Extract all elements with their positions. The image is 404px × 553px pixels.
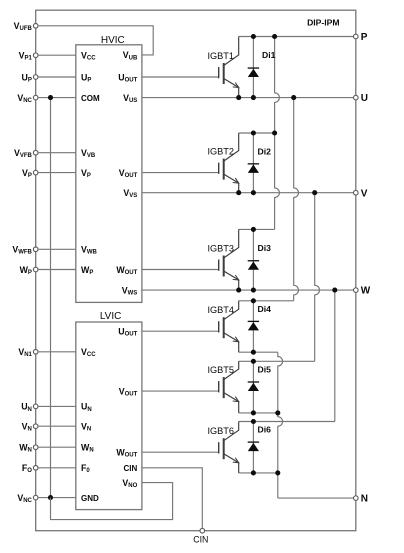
svg-text:HVIC: HVIC [101,35,125,46]
diode Di1 [248,37,259,98]
transistor IGBT6 [219,422,239,473]
terminal VP pin circle [33,170,38,175]
wire LVIC CIN to CIN terminal [142,468,202,531]
wire U feed vertical (U line down to IGBT4 collector, hops over V and W) [294,98,299,301]
wire V feed vertical (V line down to IGBT5 collector, hops over W) [315,193,320,362]
IC block HVIC [76,45,142,303]
diode Di2 [248,133,259,193]
junction IGBT4 rail / Di4 [251,298,256,303]
junction V line / IGBT2 emitter [236,190,241,195]
wire P rail [239,36,356,38]
wire VNC2 to LVIC GND [38,497,76,499]
svg-text:VP: VP [22,168,32,179]
svg-text:VOUT: VOUT [119,386,138,397]
svg-text:LVIC: LVIC [100,311,122,322]
wire VNC control-ground vertical bus [50,98,52,498]
svg-text:Di3: Di3 [258,243,272,253]
wire IGBT4 collector rail [239,300,294,302]
svg-text:VP: VP [81,168,91,179]
svg-text:GND: GND [81,494,99,503]
wire HVIC Uout to IGBT1 gate [142,76,219,78]
svg-text:IGBT3: IGBT3 [207,243,234,253]
junction U line / Di1 [251,95,256,100]
svg-text:UP: UP [22,72,32,83]
svg-text:Di6: Di6 [258,425,272,435]
svg-text:VNO: VNO [122,478,137,489]
svg-text:VWS: VWS [122,285,138,296]
svg-text:F0: F0 [81,463,90,474]
svg-text:VN: VN [22,422,32,433]
wire LVIC Vno to VNC net loop [51,483,173,520]
svg-text:VVFB: VVFB [14,148,33,159]
svg-text:VVB: VVB [81,148,96,159]
diode Di5 [248,361,259,413]
junction P rail / P feed [272,34,277,39]
wire LVIC Uout to IGBT4 gate [142,330,219,332]
terminal VP1 pin circle [33,53,38,58]
junction W line / W feed [332,288,337,293]
svg-text:N: N [361,494,368,505]
junction U line / IGBT1 emitter [236,95,241,100]
wire VWFB to HVIC Vwb [38,248,76,250]
junction IGBT6 rail / Di6 [251,419,256,424]
svg-text:VOUT: VOUT [119,168,138,179]
terminal F0 pin circle [33,466,38,471]
svg-text:VN: VN [81,422,91,433]
svg-text:VCC: VCC [81,347,96,358]
terminal W pin circle [354,288,359,293]
svg-text:Di2: Di2 [258,147,272,157]
terminal VN1 pin circle [33,350,38,355]
wire VNC to HVIC COM [38,97,76,99]
svg-text:DIP-IPM: DIP-IPM [307,18,339,28]
wire N line to N terminal [278,497,356,499]
svg-text:WOUT: WOUT [116,265,137,276]
wire WP to HVIC Wp [38,269,76,271]
junction IGBT2 rail / Di2 [251,130,256,135]
junction V line / V feed [312,190,317,195]
svg-text:VUFB: VUFB [14,21,33,32]
svg-text:WN: WN [19,443,32,454]
terminal VN pin circle [33,424,38,429]
svg-text:UOUT: UOUT [118,72,137,83]
wire IGBT6 collector rail [239,421,335,423]
wire V phase line (Vvs to V terminal) [142,192,356,194]
svg-text:W: W [361,286,371,297]
svg-text:V: V [361,188,368,199]
svg-text:IGBT4: IGBT4 [207,305,234,315]
svg-text:IGBT6: IGBT6 [207,426,234,436]
transistor IGBT2 [219,133,239,193]
transistor IGBT3 [219,229,239,290]
junction U line / U feed [291,95,296,100]
wire VP1 to HVIC Vcc [38,54,76,56]
junction IGBT5 emitter rail / Di5 [251,410,256,415]
svg-text:IGBT5: IGBT5 [207,365,234,375]
junction IGBT2 rail / P feed [272,130,277,135]
wire W feed vertical (W line down to IGBT6 collector) [334,290,336,421]
wire IGBT2 collector rail [239,132,275,134]
wire IGBT4 emitter rail to N bus [239,351,278,353]
junction V line / Di2 [251,190,256,195]
wire WN to LVIC Wn [38,446,76,448]
terminal UN pin circle [33,404,38,409]
junction W line / IGBT3 emitter [236,288,241,293]
diode Di3 [248,229,259,290]
svg-text:UOUT: UOUT [118,327,137,338]
svg-text:VN1: VN1 [18,347,32,358]
IC block LVIC [76,322,142,510]
junction IGBT5 rail / Di5 [251,359,256,364]
terminal CIN pin circle [200,528,205,533]
wire IGBT5 emitter rail to N bus [239,412,278,414]
wire VUFB to HVIC Vub (bootstrap loop) [38,26,153,55]
svg-text:Di1: Di1 [262,50,276,60]
wire N bus vertical (IGBT4/5/6 emitters to N, hops over IGBT5 and IGBT6 collector rails) [278,352,283,498]
wire W phase line (Vws to W terminal) [142,289,356,291]
wire UN to LVIC Un [38,405,76,407]
wire HVIC Wout to IGBT3 gate [142,269,219,271]
svg-text:VNC: VNC [17,493,32,504]
svg-text:VUS: VUS [123,93,137,104]
svg-text:Di5: Di5 [258,364,272,374]
wire UP to HVIC Up [38,76,76,78]
svg-text:CIN: CIN [124,464,138,473]
svg-text:WP: WP [20,265,32,276]
transistor IGBT4 [219,301,239,352]
terminal V pin circle [354,190,359,195]
wire P feed vertical (P rail to IGBT2 IGBT3 collectors, hops over U and V) [275,37,280,230]
wire IGBT3 collector rail [239,228,275,230]
wire VN1 to LVIC Vcc [38,351,76,353]
wire VN to LVIC Vn [38,425,76,427]
terminal N pin circle [354,496,359,501]
junction P rail / Di1 [251,34,256,39]
wire F0 to LVIC F0 [38,467,76,469]
wire IGBT6 emitter rail to N bus [239,472,278,474]
terminal VNC pin circle [33,95,38,100]
wire VVFB to HVIC Vvb [38,152,76,154]
junction W line / Di3 [251,288,256,293]
svg-text:IGBT1: IGBT1 [207,51,234,61]
svg-text:WP: WP [81,265,93,276]
svg-text:VP1: VP1 [19,51,33,62]
terminal WP pin circle [33,267,38,272]
svg-text:VCC: VCC [81,51,96,62]
svg-text:WOUT: WOUT [116,448,137,459]
svg-text:UN: UN [21,402,32,413]
terminal VNC2 pin circle [33,495,38,500]
wire VP to HVIC Vp [38,172,76,174]
wire HVIC Vout to IGBT2 gate [142,172,219,174]
junction VNC top [48,95,53,100]
junction IGBT3 rail / Di3 [251,227,256,232]
svg-text:VVS: VVS [123,188,137,199]
terminal UP pin circle [33,75,38,80]
wire LVIC Wout to IGBT6 gate [142,451,219,453]
svg-text:VWB: VWB [81,245,98,256]
diode Di4 [248,301,259,352]
svg-text:UN: UN [81,402,92,413]
diode Di6 [248,422,259,473]
svg-text:UP: UP [81,72,91,83]
wire LVIC Vout to IGBT5 gate [142,390,219,392]
svg-text:VNC: VNC [17,93,32,104]
outer package boundary box [36,10,356,531]
svg-text:VWFB: VWFB [12,245,32,256]
svg-text:WN: WN [81,443,94,454]
junction VNC bottom [48,495,53,500]
svg-text:IGBT2: IGBT2 [207,146,234,156]
terminal WN pin circle [33,445,38,450]
svg-text:FO: FO [22,463,32,474]
transistor IGBT5 [219,361,239,413]
wire IGBT5 collector rail [239,360,315,362]
svg-text:Di4: Di4 [258,304,272,314]
junction IGBT6 emitter rail / Di6 [251,470,256,475]
terminal P pin circle [354,34,359,39]
junction IGBT5 emitter rail / N bus [275,410,280,415]
terminal U pin circle [354,95,359,100]
svg-text:P: P [361,32,368,43]
transistor IGBT1 [219,37,239,98]
junction IGBT6 emitter rail / N bus [275,470,280,475]
terminal VVFB pin circle [33,150,38,155]
svg-text:U: U [361,93,368,104]
svg-text:VUB: VUB [123,50,138,61]
wire U phase line (Vus to U terminal) [142,97,356,99]
junction IGBT4 emitter rail / Di4 [251,350,256,355]
terminal VUFB pin circle [33,24,38,29]
svg-text:COM: COM [81,94,100,103]
svg-text:CIN: CIN [193,535,208,545]
terminal VWFB pin circle [33,247,38,252]
